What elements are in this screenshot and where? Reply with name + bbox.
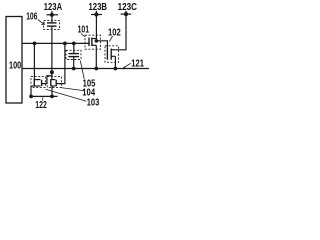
- junction dot at 123B branch: [95, 39, 99, 43]
- junction dot B2: [94, 67, 98, 71]
- svg-text:121: 121: [131, 58, 144, 69]
- svg-text:122: 122: [35, 100, 47, 111]
- leader 121: [124, 63, 131, 67]
- junction dot C2: [50, 95, 54, 99]
- wire 123C to drain of 102: [115, 15, 126, 49]
- terminal 123A: [46, 11, 58, 17]
- junction dot B1: [72, 67, 76, 71]
- svg-text:101: 101: [78, 24, 90, 35]
- wire capacitor 106 down to node X: [51, 26, 53, 72]
- junction dot A1: [33, 42, 37, 46]
- dashed box 101: [85, 35, 101, 49]
- wire source of 103 to output 122: [30, 86, 32, 96]
- wire source of 104 to output 122: [51, 86, 53, 96]
- wire node X to gate of 103: [42, 72, 52, 83]
- svg-text:106: 106: [26, 12, 38, 23]
- node X junction dot: [50, 70, 54, 74]
- svg-text:123B: 123B: [89, 2, 108, 13]
- svg-text:123C: 123C: [118, 2, 138, 13]
- wire output 122: [31, 95, 58, 97]
- leader 102: [109, 36, 112, 42]
- wire source of 102 down to output 121: [114, 56, 116, 68]
- svg-text:104: 104: [82, 88, 95, 99]
- wire 123B branch to gate of 102: [96, 41, 107, 50]
- wire node X to drain of 104: [51, 72, 53, 79]
- wire node A down to drain of 103: [33, 43, 35, 79]
- leader 106: [38, 20, 45, 25]
- svg-text:103: 103: [87, 98, 100, 109]
- junction dot A2: [63, 42, 67, 46]
- junction dot B3: [114, 67, 118, 71]
- wire source of 101 down to output 121: [95, 45, 97, 68]
- wire node A down to gate of 104: [57, 43, 65, 83]
- wire node A to capacitor 105: [73, 43, 75, 53]
- wire node A (from block 100 to gate of 101): [22, 42, 89, 44]
- transistor 104: [51, 79, 56, 86]
- transistor 101: [89, 38, 96, 47]
- dashed box 106: [44, 20, 60, 29]
- dashed box 105: [66, 50, 81, 59]
- dashed box 102: [105, 46, 119, 63]
- svg-text:102: 102: [108, 28, 121, 39]
- leader 101: [81, 34, 85, 37]
- block 100: [6, 17, 22, 104]
- leader 103: [46, 89, 87, 101]
- dashed box 103: [31, 77, 45, 88]
- wire 123A to capacitor 106: [51, 16, 53, 23]
- transistor 102: [107, 49, 115, 60]
- wire 123B to drain of 101: [95, 16, 97, 41]
- capacitor 106: [47, 23, 57, 26]
- leader 122: [41, 97, 44, 100]
- terminal 123C: [121, 11, 132, 17]
- junction dot A3: [72, 42, 76, 46]
- wire output 121 (from block 100 to right edge): [22, 68, 149, 70]
- transistor 103: [31, 79, 42, 86]
- junction dot C1: [29, 95, 33, 99]
- terminal 123B: [91, 11, 102, 17]
- svg-text:123A: 123A: [44, 2, 63, 13]
- arrowhead 121: [121, 66, 126, 69]
- wire capacitor 105 to output 121: [73, 57, 75, 69]
- svg-text:100: 100: [9, 61, 22, 72]
- leader 105: [80, 61, 84, 80]
- dashed box 104: [47, 77, 61, 88]
- capacitor 105: [68, 54, 79, 57]
- leader 104: [61, 88, 84, 91]
